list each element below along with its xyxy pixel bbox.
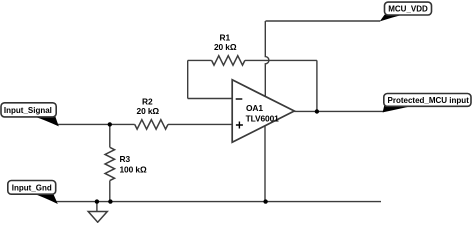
- node flag Input_Gnd box: [8, 181, 56, 195]
- wire to inverting input: [188, 98, 233, 100]
- wire top MCU_VDD horizontal: [266, 20, 381, 22]
- node flag Protected_MCU input box: [384, 94, 471, 107]
- node junction at R3 top: [108, 122, 112, 126]
- node flag MCU_VDD box: [385, 2, 432, 15]
- wire feedback right vertical: [316, 60, 318, 111]
- svg-text:OA1: OA1: [246, 103, 263, 113]
- node flag Input_Signal tail: [34, 116, 59, 126]
- svg-text:20 kΩ: 20 kΩ: [137, 106, 160, 116]
- wire feedback after R1: [245, 59, 317, 61]
- svg-text:TLV6001: TLV6001: [246, 113, 280, 123]
- resistor R2: [135, 120, 168, 130]
- svg-text:Protected_MCU input: Protected_MCU input: [388, 96, 470, 105]
- svg-text:Input_Gnd: Input_Gnd: [12, 183, 52, 192]
- wire feedback top horizontal: [188, 59, 212, 61]
- wire op-amp V- pin to ground rail: [264, 126, 266, 202]
- wire feedback left vertical: [187, 60, 189, 98]
- node flag Protected_MCU input tail: [383, 106, 414, 113]
- node flag Input_Signal box: [1, 103, 56, 117]
- wire R3 top lead: [109, 124, 111, 147]
- op-amp plus sign: [236, 122, 243, 129]
- node junction R3 bottom: [108, 199, 112, 203]
- node junction output feedback: [315, 109, 319, 113]
- svg-text:MCU_VDD: MCU_VDD: [388, 5, 428, 14]
- svg-text:R1: R1: [220, 33, 231, 43]
- svg-text:R3: R3: [120, 154, 131, 164]
- wire input signal: [57, 123, 135, 125]
- wire output: [294, 110, 384, 112]
- node junction ground stub: [95, 199, 99, 203]
- svg-text:20 kΩ: 20 kΩ: [214, 42, 237, 52]
- svg-text:Input_Signal: Input_Signal: [4, 106, 52, 115]
- node flag MCU_VDD tail: [380, 15, 403, 22]
- wire R3 bottom lead: [109, 181, 111, 202]
- op-amp OA1 triangle: [232, 80, 294, 143]
- wire ground stub: [96, 202, 98, 212]
- node junction V- rail: [263, 199, 267, 203]
- ground: [88, 212, 107, 223]
- resistor R1: [212, 56, 245, 66]
- op-amp minus sign: [236, 98, 243, 100]
- svg-text:100 kΩ: 100 kΩ: [120, 165, 147, 175]
- resistor R3: [105, 147, 115, 180]
- wire R2 to noninverting input: [168, 123, 232, 125]
- wire bottom ground rail: [56, 201, 381, 203]
- wire vertical V+ supply with hop over feedback: [265, 21, 269, 96]
- node flag Input_Gnd tail: [34, 194, 58, 204]
